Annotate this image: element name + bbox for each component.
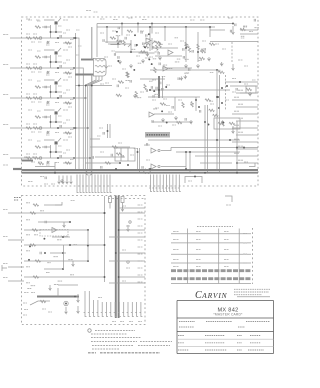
junction [217, 96, 219, 98]
label [116, 35, 121, 37]
wire [150, 89, 230, 91]
table row label [173, 259, 179, 261]
wire [155, 55, 182, 57]
wire [52, 236, 70, 238]
wire [63, 102, 72, 104]
wire [151, 38, 153, 50]
wire [95, 156, 125, 158]
label [146, 144, 150, 146]
table side note [243, 253, 247, 255]
resistor R10 [33, 97, 39, 99]
label [26, 18, 30, 20]
capacitor C29 [162, 88, 163, 91]
resistor R47 [160, 103, 166, 105]
wire [55, 55, 57, 62]
junction [149, 26, 151, 28]
capacitor C14 [158, 52, 159, 55]
junction [62, 268, 64, 270]
bus junction [54, 172, 56, 174]
label [46, 44, 50, 46]
resistor R33 [117, 40, 123, 42]
wire [55, 85, 57, 92]
output label [238, 131, 243, 133]
resistor R48 [182, 102, 184, 108]
wire [107, 124, 109, 138]
label [37, 50, 41, 52]
connector pin [77, 175, 79, 193]
junction [137, 23, 139, 25]
channel 3 base wire [44, 79, 55, 81]
label [154, 93, 159, 95]
junction [43, 238, 45, 240]
connector pin [83, 175, 85, 193]
junction [221, 102, 223, 104]
resistor R53 [209, 109, 215, 111]
wire [55, 145, 57, 152]
aux connector pin [88, 300, 91, 317]
resistor R6 [33, 67, 39, 69]
label [222, 48, 226, 50]
output label [234, 138, 239, 140]
output stub wire [236, 120, 258, 122]
wiring table column line [187, 229, 189, 284]
label [152, 99, 156, 101]
pin number label [138, 321, 142, 323]
label [99, 127, 103, 129]
crossing wire [75, 85, 112, 87]
junction [198, 106, 200, 108]
label [37, 20, 41, 22]
corner label [14, 198, 21, 201]
junction [236, 162, 238, 164]
wire [88, 291, 90, 300]
label [28, 79, 32, 81]
wire [55, 115, 57, 122]
output stub wire [236, 134, 258, 136]
label [134, 148, 138, 150]
aux pin label [138, 274, 143, 276]
junction [55, 61, 57, 63]
capacitor C59 [45, 221, 46, 224]
label [63, 152, 66, 154]
notes text line [95, 330, 135, 332]
connector pin [101, 175, 103, 193]
junction [69, 244, 71, 246]
wire [200, 162, 232, 164]
connector pin [168, 175, 171, 192]
wire [30, 301, 50, 305]
channel 3 output wire [63, 97, 86, 99]
wire [109, 124, 111, 138]
label [185, 43, 189, 45]
arrow [65, 307, 68, 314]
channel 2 bias wire [50, 55, 52, 68]
resistor R51 [213, 114, 219, 116]
junction [73, 157, 75, 159]
label [210, 103, 214, 105]
label [163, 64, 167, 66]
junction [116, 31, 118, 33]
title block text [248, 349, 264, 351]
resistor R18 [33, 157, 39, 159]
label [31, 285, 35, 287]
diode D4 [47, 131, 49, 133]
label [70, 274, 74, 276]
aux connector pin [140, 302, 143, 317]
op-amp U2 [168, 50, 173, 55]
wire [51, 151, 63, 153]
title block text [238, 326, 245, 328]
wire [139, 52, 155, 54]
junction [104, 212, 106, 214]
bus junction [104, 244, 106, 246]
junction [208, 124, 210, 126]
junction [130, 51, 132, 53]
resistor R20 [65, 162, 71, 164]
junction [166, 122, 168, 124]
transistor Q5 [55, 141, 58, 144]
note [226, 204, 231, 206]
notes text line [140, 341, 172, 343]
wire [161, 166, 186, 168]
label [243, 26, 247, 28]
junction [119, 162, 121, 164]
capacitor C50 [142, 166, 143, 169]
label [31, 292, 35, 294]
table cell text [196, 249, 201, 251]
label [58, 55, 62, 57]
label [70, 99, 74, 101]
transistor Q1 [55, 21, 58, 24]
capacitor C57 [109, 197, 112, 203]
channel 3 collector wire [58, 78, 61, 81]
wire [90, 138, 100, 140]
label [126, 267, 130, 269]
wire [210, 41, 258, 43]
capacitor C54 [92, 156, 93, 159]
arrow [232, 126, 235, 133]
label [137, 97, 142, 99]
resistor R30 [127, 72, 129, 78]
potentiometer VR1 [128, 44, 131, 47]
label [33, 33, 37, 35]
junction [50, 151, 52, 153]
net label [113, 19, 118, 21]
capacitor C12 [135, 44, 136, 47]
output stub wire [240, 29, 258, 31]
resistor R39 [219, 71, 225, 73]
harness wire [86, 76, 97, 171]
component box [214, 118, 240, 129]
label [155, 32, 159, 34]
junction [118, 276, 120, 278]
channel 5 input stub [10, 157, 22, 159]
resistor R17 [26, 157, 32, 159]
title block text [237, 335, 242, 337]
table cell text [224, 249, 229, 251]
channel 2 input label [3, 64, 8, 66]
table side note [243, 242, 247, 244]
harness junction [87, 127, 89, 129]
label [58, 145, 62, 147]
wire [150, 69, 217, 71]
junction [221, 87, 223, 89]
corner hook wire [249, 163, 255, 167]
aux send wire [109, 282, 145, 284]
label [68, 136, 72, 138]
junction [136, 44, 138, 46]
table side note [243, 262, 247, 264]
resistor R31 [154, 67, 156, 73]
wire [51, 31, 63, 33]
label [26, 234, 30, 236]
label [63, 92, 66, 94]
channel 3 bias wire [50, 85, 52, 98]
aux connector pin [114, 302, 117, 317]
connector pin [80, 175, 82, 193]
aux connector pin [84, 300, 87, 317]
capacitor C32 [192, 50, 193, 53]
capacitor C45 [146, 89, 147, 92]
resistor R8 [65, 72, 71, 74]
resistor R99 [240, 28, 246, 30]
label [68, 76, 72, 78]
junction [73, 67, 75, 69]
resistor R16 [65, 132, 71, 134]
capacitor C55 [103, 132, 104, 135]
label [149, 80, 153, 82]
aux connector pin [118, 302, 121, 317]
value label [63, 49, 68, 51]
resistor R55 [116, 153, 122, 155]
junction [54, 172, 56, 174]
wire [51, 121, 63, 123]
label [70, 129, 74, 131]
connector pin [98, 175, 100, 193]
aux send wire [119, 212, 145, 214]
connector pin [156, 175, 159, 192]
junction [73, 37, 75, 39]
junction [115, 252, 117, 254]
label [185, 58, 189, 60]
label [153, 58, 157, 60]
capacitor C28 [189, 68, 190, 71]
label [38, 41, 42, 43]
label [46, 164, 50, 166]
title block left border [176, 301, 178, 354]
label [140, 30, 144, 32]
label [241, 35, 245, 37]
label [98, 297, 102, 299]
resistor R60 [33, 204, 39, 206]
resistor R3 [35, 26, 41, 28]
resistor R1 [26, 37, 32, 39]
wire [63, 42, 72, 44]
label [66, 89, 70, 91]
label [249, 31, 253, 33]
label [168, 43, 172, 45]
label [33, 93, 37, 95]
label [145, 38, 150, 40]
capacitor C52 [146, 143, 147, 146]
bus junction [104, 212, 106, 214]
aux bus wire [24, 212, 104, 214]
thick feed wire [22, 160, 34, 162]
label [46, 104, 50, 106]
aux pin label [138, 225, 143, 227]
title block text [205, 335, 225, 337]
label [34, 234, 38, 236]
arrow [232, 64, 235, 70]
junction [151, 23, 153, 25]
capacitor C47 [185, 118, 186, 121]
channel 2 main wire [22, 67, 63, 69]
capacitor C27 [183, 48, 184, 51]
connector pin [159, 175, 162, 192]
main bus vertical [207, 105, 209, 173]
wire [176, 151, 240, 153]
master section label text [147, 134, 169, 136]
junction [121, 23, 123, 25]
label [112, 78, 116, 80]
bus junction [204, 172, 206, 174]
wiring table bottom line [171, 283, 251, 285]
label [68, 16, 72, 18]
capacitor C22 [125, 37, 126, 40]
connector pin [178, 175, 181, 192]
label [76, 54, 80, 56]
label [232, 78, 236, 80]
junction [137, 151, 139, 153]
wire [85, 162, 120, 164]
capacitor C35 [178, 77, 179, 80]
junction [189, 151, 191, 153]
label [228, 17, 233, 19]
junction [195, 99, 197, 101]
feedback loop wire [150, 27, 210, 37]
aux send wire [109, 236, 145, 238]
wire [44, 204, 62, 206]
wire [162, 67, 192, 69]
master section label [145, 132, 170, 138]
label [40, 210, 44, 212]
notes text line [92, 345, 134, 347]
channel 4 input stub [10, 127, 22, 129]
label [152, 79, 156, 81]
label [172, 124, 176, 126]
label [138, 62, 142, 64]
label [209, 100, 213, 102]
label [118, 142, 122, 144]
wire [152, 121, 192, 123]
bus junction [104, 276, 106, 278]
arrow [49, 285, 52, 290]
junction [185, 151, 187, 153]
resistor R57 [229, 122, 235, 124]
wire [197, 32, 199, 62]
label [38, 71, 42, 73]
aux connector pin [101, 302, 104, 317]
wiring table row line [171, 253, 251, 255]
label [57, 239, 62, 241]
junction [134, 34, 136, 36]
label [145, 57, 150, 59]
wire [108, 43, 131, 45]
label [232, 91, 236, 93]
harness vertical wire [75, 33, 77, 171]
channel 1 main wire [22, 37, 63, 39]
wire [58, 284, 78, 286]
aux label [3, 209, 8, 211]
wire [63, 132, 72, 134]
notes text line [92, 348, 120, 350]
channel 2 output wire to harness [63, 68, 83, 171]
label [24, 309, 28, 311]
value label [63, 139, 68, 141]
aux input stub [8, 239, 24, 241]
title block text [205, 342, 225, 344]
capacitor C8 [60, 125, 61, 128]
wire [231, 42, 233, 62]
junction [222, 121, 224, 123]
aux input stub [8, 280, 24, 282]
wire [54, 162, 56, 173]
title block text [250, 342, 261, 344]
label [244, 83, 248, 85]
wire [117, 36, 119, 48]
wire [154, 113, 174, 115]
channel 4 main wire [22, 127, 63, 129]
wire [189, 152, 191, 173]
wire [164, 27, 166, 41]
wire [230, 85, 258, 87]
table cell text [196, 239, 201, 241]
label [225, 99, 229, 101]
connector pin [107, 175, 109, 193]
label [28, 139, 32, 141]
junction [164, 26, 166, 28]
label [31, 101, 35, 103]
label [198, 60, 202, 62]
label [26, 282, 30, 284]
arrow [127, 225, 130, 231]
ground [133, 94, 136, 98]
net label [128, 17, 133, 19]
wiring table column line 2 [218, 229, 220, 284]
wire [57, 288, 59, 297]
output stub wire [232, 155, 258, 157]
label [46, 134, 50, 136]
channel 4 base wire [44, 109, 55, 111]
label [184, 72, 188, 74]
label [111, 50, 115, 52]
channel 1 jack [39, 37, 42, 40]
channel 3 input stub [10, 97, 22, 99]
label [66, 59, 70, 61]
capacitor C18 [159, 63, 160, 66]
label [66, 29, 70, 31]
aux pin label [138, 239, 143, 241]
ground [180, 76, 183, 80]
ribbon connector J1 coil row 3 [95, 71, 105, 73]
op-amp U7 [52, 228, 57, 233]
title block row divider [177, 338, 274, 340]
label [241, 37, 245, 39]
wire [63, 245, 65, 269]
resistor R62 [32, 229, 38, 231]
resistor R66 [40, 300, 46, 302]
junction [216, 69, 218, 71]
